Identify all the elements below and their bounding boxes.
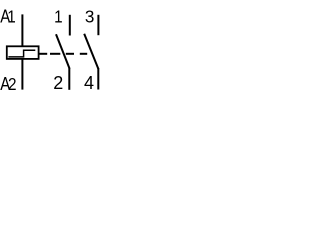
mechanical link dashed wire [39,53,87,55]
svg-text:3: 3 [85,6,95,27]
contact 3-4 bottom terminal wire [97,68,99,90]
contact 3-4 top terminal wire [97,15,99,35]
contact 1-2 bottom terminal wire [68,68,70,90]
contact 1-2 top terminal wire [69,15,71,36]
contact 1-2 moving lever [56,34,70,69]
wire A1 to coil [21,14,23,46]
coil K1 box [7,46,39,59]
svg-text:2: 2 [53,73,63,93]
terminal label A1 [0,6,16,27]
svg-text:4: 4 [84,73,94,93]
contact 3-4 moving lever [84,34,98,69]
coil step-function symbol [8,50,35,57]
svg-text:1: 1 [54,6,63,26]
svg-text:1: 1 [7,6,16,26]
wire coil to A2 [21,59,23,90]
terminal label A2 [0,73,16,94]
svg-text:2: 2 [8,74,17,94]
